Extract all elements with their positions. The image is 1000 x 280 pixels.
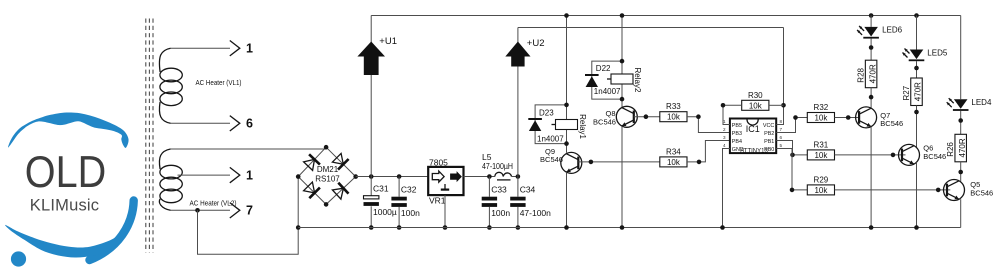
logo text KLIMusic [30,197,99,215]
wire IC PB2 to R32 [776,115,807,132]
bridge corner junctions [296,145,358,207]
svg-text:100n: 100n [401,208,420,218]
wire LED6 to R28 [869,39,874,61]
junction C31 top [369,174,374,179]
wire R34 to IC PB4 [687,141,730,165]
svg-text:1: 1 [246,42,253,56]
resistor R30 10k [742,91,769,111]
wire VL2 pin7 [171,209,231,211]
junction D22 bottom [620,97,625,102]
led LED5 [903,48,948,61]
wire VL1 pin6 [171,122,231,124]
wire IC PB0 to R29 [776,149,807,193]
svg-text:47-100µH: 47-100µH [482,161,513,171]
junction C31 bus [369,225,374,230]
svg-text:1n4007: 1n4007 [537,135,564,144]
svg-text:7805: 7805 [429,158,448,168]
wire VL2 top to bridge [171,148,327,150]
svg-text:100n: 100n [491,208,510,218]
resistor R27 470R [902,78,923,106]
wire LED4 to R26 [958,111,963,134]
svg-text:LED5: LED5 [927,48,948,57]
svg-text:OLD: OLD [25,147,106,197]
wire VR1 gnd to bus [443,195,448,230]
svg-text:R30: R30 [748,91,763,100]
logo bottom wave swoosh [5,221,133,257]
svg-text:Relay1: Relay1 [578,114,587,139]
wire Q9 collector column [566,16,568,153]
svg-text:R34: R34 [666,147,681,156]
wire pin7 down and right to bridge minus [198,177,299,255]
svg-text:10k: 10k [814,151,828,160]
svg-text:D22: D22 [596,64,611,73]
wire Q6 emitter to bus [914,162,919,230]
svg-text:AC Heater (VL2): AC Heater (VL2) [190,199,237,208]
svg-text:R33: R33 [666,102,681,111]
wire Q9 emitter to bus [564,172,569,230]
svg-text:470R: 470R [914,82,923,101]
winding AC Heater VL1 [159,48,241,123]
svg-text:7: 7 [246,204,253,218]
wire IC PB1 to R31 [776,141,807,158]
logo text OLD [25,147,106,197]
svg-text:VCC: VCC [763,123,774,129]
svg-text:+U1: +U1 [379,36,397,47]
svg-text:R31: R31 [814,140,829,149]
svg-text:PB2: PB2 [764,131,774,137]
junction L5 left / C33 [487,174,492,179]
wire +U2 riser [517,28,519,177]
transistor Q9 BC546 [540,147,582,173]
transistor Q8 BC546 [593,106,637,127]
wire bridge to VR1 input [356,176,429,178]
voltage regulator VR1 7805 [428,158,463,206]
svg-text:LED4: LED4 [971,98,992,107]
wire +U1 riser [370,16,372,177]
wire R27 to Q6 [914,106,919,148]
svg-text:1n4007: 1n4007 [594,87,621,96]
junction D22 top [620,59,625,64]
svg-text:C33: C33 [491,185,507,195]
bridge diode lower-left [304,182,320,198]
svg-text:DM21: DM21 [317,165,339,174]
wire R33 to IC PB3 [687,114,730,132]
led LED6 [857,26,903,39]
IC IC1 ATTINY13 [723,119,783,155]
junction VL2 pin7 [195,208,200,213]
transistor Q6 BC546 [899,144,947,166]
wire R29 to Q5 base [835,188,951,193]
svg-text:10k: 10k [749,101,763,110]
top rail +U1 [371,15,961,17]
junction D23 bottom [564,141,569,146]
svg-text:6: 6 [246,117,253,131]
wire Q5 emitter to bus [960,199,962,227]
svg-text:C32: C32 [401,185,417,195]
bridge diode upper-right [332,153,348,169]
transformer core [146,19,153,253]
svg-text:10k: 10k [814,186,828,195]
svg-text:BC546: BC546 [923,152,946,161]
transistor Q5 BC546 [944,180,994,201]
svg-text:RS107: RS107 [315,175,340,184]
relay coil Relay1 [552,114,588,139]
svg-text:BC546: BC546 [880,119,903,128]
wire Q7 emitter to bus [869,127,874,230]
svg-text:7: 7 [780,127,783,132]
resistor R28 470R [857,60,878,87]
svg-text:PB4: PB4 [732,139,742,145]
svg-text:3: 3 [723,135,726,140]
svg-text:5: 5 [780,143,783,148]
pin arrow 6 (VL1) [230,116,253,131]
svg-text:+U2: +U2 [527,38,545,49]
wire R28 to Q7 [869,88,874,109]
junction C32 top [397,174,402,179]
junction C32 bus [397,225,402,230]
svg-text:VR1: VR1 [429,196,446,206]
capacitor C32 100n [391,177,420,228]
svg-text:470R: 470R [868,64,877,83]
svg-text:PB0: PB0 [764,147,774,153]
svg-text:PB5: PB5 [732,123,742,129]
winding AC Heater VL2 [159,149,236,210]
wire Q8 emitter to bus [620,126,625,230]
wire Q8 collector column [621,16,623,108]
svg-text:1: 1 [246,169,253,183]
svg-text:R29: R29 [814,175,829,184]
svg-text:4: 4 [723,143,726,148]
wire VL2 pin1 [178,174,231,176]
resistor R34 10k [660,147,687,167]
bridge diode upper-left [304,154,320,170]
svg-text:10k: 10k [667,158,681,167]
diode D23 1n4007 loop [528,105,566,144]
diode D22 1n4007 loop [585,61,622,99]
svg-text:D23: D23 [539,109,554,118]
wire L5 right to C34 node [512,176,518,178]
junction L5 right / C34 [516,174,521,179]
resistor R31 10k [807,140,834,160]
led LED4 [947,98,992,111]
svg-text:R26: R26 [946,142,955,157]
svg-text:BC546: BC546 [593,118,616,127]
svg-text:R28: R28 [857,67,866,82]
pin arrow 7 (VL2) [230,203,253,218]
logo top arc with wave swoosh and droplet [8,112,129,147]
svg-text:C34: C34 [520,185,536,195]
junction C33 bus [487,225,492,230]
logo dot [11,251,26,266]
wire LED5 to R27 [914,61,919,78]
svg-text:PB1: PB1 [764,139,774,145]
svg-text:2: 2 [723,127,726,132]
junction D23 top [564,103,569,108]
svg-text:GND: GND [732,147,744,153]
power arrow +U1 [357,36,397,75]
capacitor C31 1000u [364,177,397,228]
junction top rail Q8 column [620,13,625,18]
power arrow +U2 [505,38,544,67]
resistor R26 470R [946,134,967,162]
resistor R29 10k [807,175,834,195]
capacitor C33 100n [482,177,511,228]
bridge rectifier DM21 RS107 frame [298,147,356,204]
svg-text:C31: C31 [373,184,389,194]
svg-text:47-100n: 47-100n [520,208,551,218]
junction bus left end [296,225,301,230]
junction top rail Q9 column [564,13,569,18]
wire R30 right [769,104,784,106]
bridge label [315,165,340,184]
wire IC GND to bus [720,149,730,230]
junction top rail LED6 [869,13,874,18]
relay coil Relay2 [607,68,642,93]
transistor Q7 BC546 [856,107,904,128]
pin arrow 1 (VL1) [230,41,253,56]
wire R32 to Q7 base [835,115,860,120]
resistor R32 10k [807,103,834,123]
wire R26 to Q5 [958,162,963,182]
inductor L5 47-100uH [482,152,513,180]
svg-text:AC Heater (VL1): AC Heater (VL1) [196,78,242,87]
svg-text:IC1: IC1 [746,124,760,134]
svg-text:6: 6 [780,135,783,140]
svg-text:8: 8 [780,119,783,124]
svg-text:1000µ: 1000µ [373,207,397,217]
wire R30 left to IC PB5 [721,103,742,125]
wire rail to LED5 [916,16,918,50]
capacitor C34 47-100n [510,177,551,228]
ground bus [298,227,961,229]
wire rail corner to LED4 [960,16,962,100]
svg-text:BC546: BC546 [970,189,993,198]
bridge diode lower-right [332,183,348,199]
svg-text:LED6: LED6 [882,26,903,35]
svg-text:KLIMusic: KLIMusic [30,197,99,215]
wire Q9 base to R34 [578,160,660,165]
svg-text:BC546: BC546 [540,155,563,164]
svg-text:PB3: PB3 [732,131,742,137]
logo bottom-right ring arc [90,197,135,261]
svg-text:R32: R32 [814,103,829,112]
wire VR1 out to L5 [464,176,495,178]
svg-text:R27: R27 [902,85,911,100]
resistor R33 10k [660,102,687,122]
wire Q8 base to R33 [634,114,660,119]
svg-text:470R: 470R [958,138,967,157]
wire rail to LED6 [870,16,872,27]
pin arrow 1 (VL2) [230,167,253,182]
svg-text:10k: 10k [667,113,681,122]
junction top rail LED5 [914,13,919,18]
wire VL1 pin1 [171,47,231,49]
svg-text:10k: 10k [814,114,828,123]
+U2 rail [518,27,784,29]
junction C34 bus [516,225,521,230]
wire +U2 down to R30/VCC [776,28,786,125]
wire R31 to Q6 base [835,153,906,158]
svg-text:Relay2: Relay2 [633,68,642,93]
